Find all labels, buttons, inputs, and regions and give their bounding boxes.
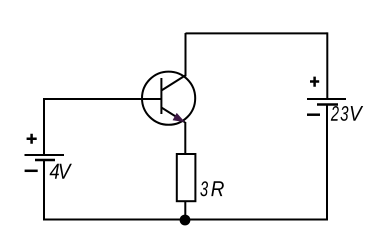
wire right upper (top wire down to 23V battery + plate) xyxy=(326,32,328,99)
transistor Q1 base bar xyxy=(160,78,162,114)
battery V2 23V: positive long plate xyxy=(307,98,346,100)
wire right lower (23V battery - plate down to bottom wire) xyxy=(326,105,328,221)
battery V2 value label 23V xyxy=(331,106,363,121)
battery V1 4V: positive long plate xyxy=(25,154,65,156)
resistor R1 body xyxy=(177,154,196,201)
wire resistor bottom to junction xyxy=(184,201,186,220)
transistor Q1 envelope circle xyxy=(142,72,195,125)
wire bottom (common return) xyxy=(43,219,328,221)
wire top (collector to +23V battery) xyxy=(186,32,328,34)
wire emitter vertical (transistor down to resistor top) xyxy=(184,122,186,154)
wire base (left corner to transistor base) xyxy=(44,98,161,100)
battery V1 4V: negative short plate xyxy=(35,159,55,162)
battery V2 plus sign xyxy=(310,77,319,87)
battery V1 plus sign xyxy=(27,134,37,144)
wire left lower (4V battery - plate down to bottom wire) xyxy=(43,160,45,220)
resistor R1 value label 3 R xyxy=(200,181,224,196)
transistor Q1 collector diagonal xyxy=(161,75,186,91)
battery V2 minus sign xyxy=(307,113,320,116)
transistor Q1 emitter diagonal xyxy=(161,108,185,123)
battery V1 value label 4V xyxy=(50,164,72,179)
wire collector vertical (top wire down to transistor) xyxy=(185,33,187,76)
wire left upper (base wire corner down to 4V battery + plate) xyxy=(43,98,45,155)
transistor Q1 emitter arrow (purple) xyxy=(173,114,184,122)
battery V1 minus sign xyxy=(25,170,38,173)
junction node (emitter resistor to bottom wire) xyxy=(180,215,191,226)
battery V2 23V: negative short plate xyxy=(317,103,338,106)
